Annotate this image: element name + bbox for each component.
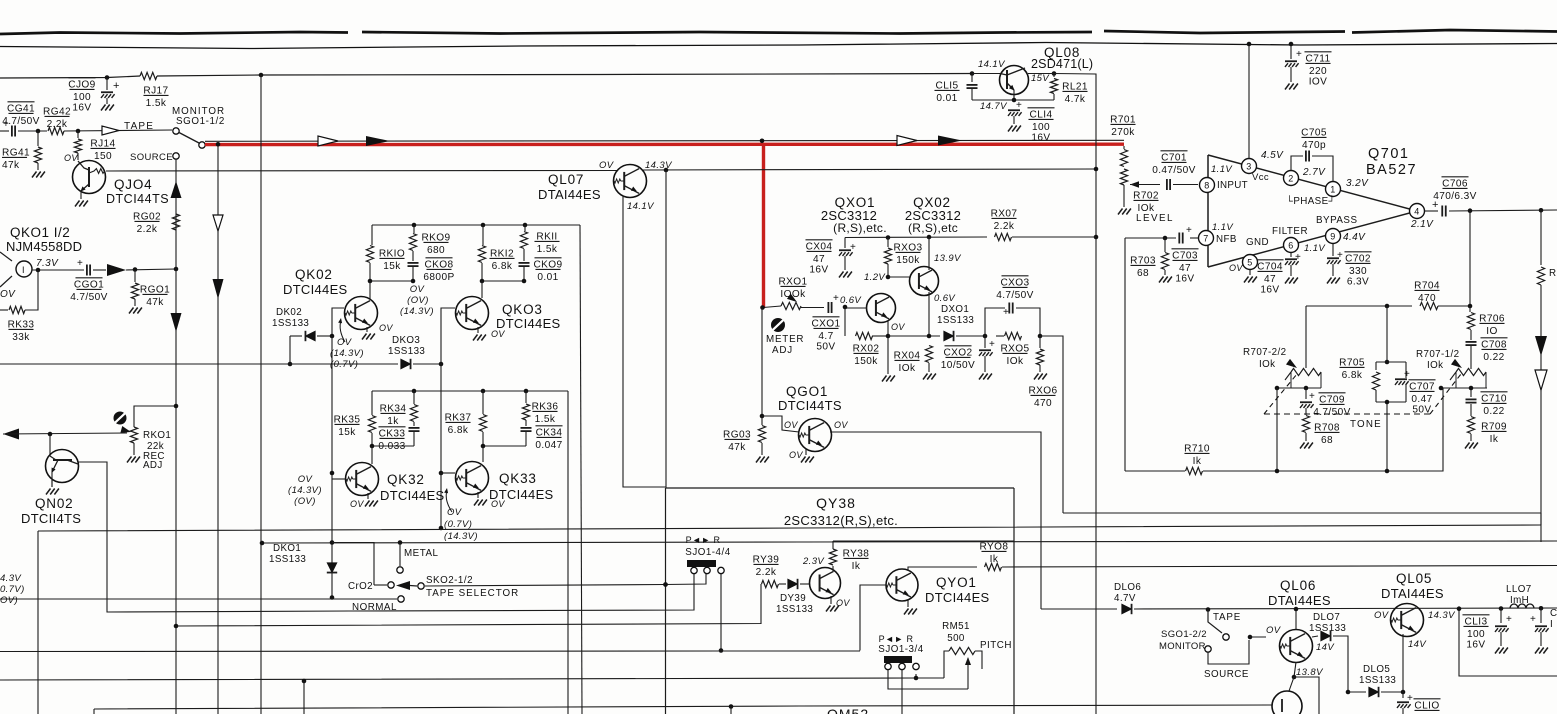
svg-text:SOURCE: SOURCE xyxy=(130,152,173,163)
transistor QX02 xyxy=(910,267,939,296)
svg-text:C709: C709 xyxy=(1319,394,1345,405)
svg-text:+: + xyxy=(1309,391,1315,402)
junction CJ09 node xyxy=(105,75,110,80)
second border line xyxy=(0,43,1557,49)
svg-text:TONE: TONE xyxy=(1350,419,1382,430)
svg-text:9: 9 xyxy=(1330,231,1335,241)
resistor RX05 xyxy=(1005,332,1022,339)
transistor QL05 xyxy=(1391,604,1424,637)
svg-text:1SS133: 1SS133 xyxy=(1309,623,1346,634)
svg-text:OV: OV xyxy=(410,284,426,295)
svg-text:DXO1: DXO1 xyxy=(941,304,969,315)
svg-text:RX07: RX07 xyxy=(991,208,1018,219)
capacitor CJ09 xyxy=(106,78,108,91)
svg-text:R703: R703 xyxy=(1130,255,1156,266)
wire to QL06 base xyxy=(1249,636,1266,638)
svg-text:CXO1: CXO1 xyxy=(811,318,840,329)
svg-text:+: + xyxy=(1186,225,1192,236)
svg-text:+: + xyxy=(850,242,856,253)
triangle xyxy=(1207,155,1209,267)
resistor RY39 xyxy=(762,580,779,587)
svg-text:4.5V: 4.5V xyxy=(1261,150,1284,161)
line B y542 xyxy=(262,541,1557,543)
wire y599 xyxy=(0,598,397,600)
svg-text:DTCII4TS: DTCII4TS xyxy=(21,511,81,526)
wire SK02 to connector y585 xyxy=(425,573,706,586)
junction top line x262 xyxy=(259,73,264,78)
svg-text:150k: 150k xyxy=(896,255,920,266)
bus RK35/RK34 bottom xyxy=(372,445,414,447)
dashed gang lines TONE xyxy=(1264,374,1297,414)
svg-text:16V: 16V xyxy=(1466,639,1485,650)
svg-text:1.5k: 1.5k xyxy=(535,414,556,425)
svg-text:DKO1: DKO1 xyxy=(273,543,301,554)
resistor RG01 xyxy=(134,270,136,282)
svg-text:ImH: ImH xyxy=(1510,595,1529,606)
svg-text:CLI3: CLI3 xyxy=(1465,616,1488,627)
pin 5 GND xyxy=(1243,255,1258,270)
TAPE arrow xyxy=(102,126,119,135)
capacitor CK34 xyxy=(521,427,532,429)
vertical x1470 xyxy=(1469,211,1471,306)
svg-text:(14.3V): (14.3V) xyxy=(330,348,364,359)
svg-text:1.5k: 1.5k xyxy=(146,98,167,109)
svg-text:OV: OV xyxy=(298,474,314,485)
capacitor CK09 xyxy=(519,262,530,264)
svg-text:6800P: 6800P xyxy=(423,272,454,283)
svg-text:MONITOR: MONITOR xyxy=(1159,641,1206,652)
svg-text:C706: C706 xyxy=(1442,178,1468,189)
pin5 ground xyxy=(1249,270,1251,275)
capacitor CG41 label xyxy=(7,101,34,103)
svg-text:1SS133: 1SS133 xyxy=(272,318,309,329)
svg-text:1SS133: 1SS133 xyxy=(1359,675,1396,686)
svg-text:└PHASE┘: └PHASE┘ xyxy=(1286,195,1336,207)
transistor QG01 xyxy=(762,416,799,432)
svg-text:QKO3: QKO3 xyxy=(502,302,543,317)
pin 7 NFB xyxy=(1199,231,1214,246)
svg-text:TAPE: TAPE xyxy=(124,121,154,132)
svg-text:OV: OV xyxy=(491,499,505,509)
svg-text:IOV: IOV xyxy=(1309,76,1328,87)
bus y306 xyxy=(1306,305,1412,307)
svg-text:OV: OV xyxy=(350,499,364,509)
svg-text:RXO1: RXO1 xyxy=(778,276,807,287)
svg-text:7: 7 xyxy=(1203,233,1208,243)
wire y237 xyxy=(845,236,987,239)
op-amp QK01 output xyxy=(0,252,12,261)
svg-text:LLO7: LLO7 xyxy=(1506,584,1532,595)
svg-text:150k: 150k xyxy=(854,356,878,367)
CrO2 branch xyxy=(332,543,374,586)
QY01 collector to RY08 xyxy=(908,567,977,571)
NFB wire / C703 / R703 xyxy=(1190,237,1198,239)
svg-text:RKO9: RKO9 xyxy=(421,232,450,243)
svg-text:OV): OV) xyxy=(0,595,18,606)
svg-text:BA527: BA527 xyxy=(1366,162,1417,178)
svg-text:(14.3V): (14.3V) xyxy=(288,485,322,496)
Vcc supply from top xyxy=(1248,44,1250,158)
svg-text:IOk: IOk xyxy=(899,363,916,374)
capacitor C702 xyxy=(1332,244,1334,256)
resistor RG41 xyxy=(37,131,39,146)
x304 stub xyxy=(302,679,307,684)
svg-text:2.2k: 2.2k xyxy=(137,224,158,235)
svg-text:4: 4 xyxy=(1414,206,1419,216)
svg-text:0.047: 0.047 xyxy=(535,440,562,451)
svg-text:QM52: QM52 xyxy=(827,706,869,714)
svg-text:Ik: Ik xyxy=(852,561,861,572)
svg-text:OV: OV xyxy=(491,329,505,339)
transistor QL07 xyxy=(614,165,647,198)
transistor QX01 xyxy=(867,294,896,323)
svg-text:15k: 15k xyxy=(338,427,356,438)
resistor RX06 xyxy=(1039,336,1041,348)
svg-text:6.8k: 6.8k xyxy=(448,425,469,436)
svg-text:+: + xyxy=(1407,693,1413,704)
svg-text:RKI2: RKI2 xyxy=(490,248,514,259)
transistor QK32 xyxy=(346,463,379,496)
svg-text:PITCH: PITCH xyxy=(980,640,1012,651)
capacitor C701 xyxy=(1166,179,1168,190)
wire y513 xyxy=(1063,512,1541,514)
svg-text:IOk: IOk xyxy=(1259,359,1275,370)
vertical x762 meter line xyxy=(761,308,763,417)
svg-text:+: + xyxy=(1016,100,1022,111)
svg-text:CGO1: CGO1 xyxy=(74,279,104,290)
resistor RL21 xyxy=(1052,71,1057,76)
svg-text:QJO4: QJO4 xyxy=(114,177,152,192)
wire: input line y~131 with CG41 RG42 xyxy=(0,130,9,132)
svg-text:METAL: METAL xyxy=(404,548,438,559)
svg-text:Ik: Ik xyxy=(1490,434,1499,445)
svg-text:NORMAL: NORMAL xyxy=(352,602,397,613)
vertical x582 long xyxy=(580,225,582,714)
lines y513/y525 right side connect xyxy=(1540,513,1542,525)
wire y336 out to x1063 xyxy=(1040,336,1063,513)
svg-text:OV: OV xyxy=(784,420,798,430)
svg-text:RX02: RX02 xyxy=(853,343,880,354)
bottom wire y471 R710 xyxy=(1125,470,1185,472)
svg-text:RK35: RK35 xyxy=(334,414,361,425)
QL08 collector wire to x1097 xyxy=(1028,74,1096,715)
svg-text:QL07: QL07 xyxy=(548,172,584,187)
svg-text:RK36: RK36 xyxy=(532,401,559,412)
svg-text:470: 470 xyxy=(1418,293,1436,304)
QL06 collector 13.8V xyxy=(1294,662,1296,677)
svg-text:P◄► R: P◄► R xyxy=(879,634,914,644)
svg-text:14.3V: 14.3V xyxy=(645,160,673,171)
monitor switch SG01-2/2 xyxy=(1206,607,1211,612)
base node down RX02 xyxy=(844,308,846,337)
METAL stub xyxy=(399,543,401,567)
svg-text:4.7/50V: 4.7/50V xyxy=(996,290,1034,301)
svg-text:+: + xyxy=(113,80,120,92)
14.3V vertical x666 xyxy=(665,170,667,488)
svg-text:SKO2-1/2: SKO2-1/2 xyxy=(426,575,473,586)
svg-text:R708: R708 xyxy=(1314,422,1340,433)
svg-text:CX04: CX04 xyxy=(806,241,833,252)
svg-text:SJO1-3/4: SJO1-3/4 xyxy=(878,644,923,655)
QG01 collector path xyxy=(830,432,1041,609)
svg-text:1SS133: 1SS133 xyxy=(776,604,813,615)
svg-text:8: 8 xyxy=(1204,180,1209,190)
svg-text:OV: OV xyxy=(337,337,353,348)
wire y541 RY38 top xyxy=(833,540,1014,542)
svg-text:CrO2: CrO2 xyxy=(348,581,373,592)
svg-text:OV: OV xyxy=(1374,610,1390,621)
svg-text:CXO2: CXO2 xyxy=(943,347,972,358)
svg-text:DTAI44ES: DTAI44ES xyxy=(1268,593,1331,608)
resistor RX04 xyxy=(925,346,932,363)
svg-text:R707-1/2: R707-1/2 xyxy=(1416,349,1460,360)
svg-text:ADJ: ADJ xyxy=(772,345,793,356)
svg-text:OV: OV xyxy=(0,289,16,300)
svg-text:SJO1-4/4: SJO1-4/4 xyxy=(685,547,730,558)
svg-text:68: 68 xyxy=(1321,435,1333,446)
svg-text:Ik: Ik xyxy=(1193,456,1202,467)
svg-text:DY39: DY39 xyxy=(780,593,806,604)
svg-text:SGO1-1/2: SGO1-1/2 xyxy=(176,116,225,127)
resistor RK34 xyxy=(413,391,415,404)
svg-text:+: + xyxy=(1506,614,1512,625)
potentiometer R702 xyxy=(1120,169,1127,185)
svg-text:4.4V: 4.4V xyxy=(1343,232,1366,243)
svg-text:(OV): (OV) xyxy=(407,295,429,306)
NFB feedback vertical x1125 xyxy=(1124,238,1126,471)
svg-text:6.3V: 6.3V xyxy=(1347,276,1369,287)
x1277 vertical to bottom xyxy=(1276,388,1278,471)
svg-text:R705: R705 xyxy=(1339,357,1365,368)
svg-text:RXO5: RXO5 xyxy=(1000,343,1029,354)
svg-text:BYPASS: BYPASS xyxy=(1316,215,1357,226)
svg-text:RGO1: RGO1 xyxy=(140,284,170,295)
resistor RY38 collector xyxy=(832,566,834,571)
svg-text:QGO1: QGO1 xyxy=(786,384,828,399)
bus RK12/CK09 bottom xyxy=(482,280,524,282)
svg-text:470/6.3V: 470/6.3V xyxy=(1433,191,1477,202)
QK33 annotation xyxy=(446,490,452,512)
right branch R706 C708 xyxy=(1469,306,1471,312)
svg-text:2SD471(L): 2SD471(L) xyxy=(1031,57,1093,71)
pin 6 FILTER xyxy=(1284,238,1299,253)
resistor RG03 xyxy=(761,416,763,425)
svg-text:150: 150 xyxy=(94,151,112,162)
svg-text:SOURCE: SOURCE xyxy=(1204,669,1249,680)
resistor RK12 xyxy=(482,225,484,245)
svg-text:CKO8: CKO8 xyxy=(424,259,453,270)
svg-text:14.1V: 14.1V xyxy=(978,59,1006,70)
pin 9 BYPASS xyxy=(1326,229,1341,244)
svg-text:P◄► R: P◄► R xyxy=(686,535,721,545)
svg-text:QL05: QL05 xyxy=(1396,571,1432,586)
svg-text:4.7k: 4.7k xyxy=(1065,94,1086,105)
svg-text:(14.3V): (14.3V) xyxy=(444,531,478,542)
svg-text:C708: C708 xyxy=(1481,339,1507,350)
transistor QK33 xyxy=(456,462,489,495)
svg-text:LEVEL: LEVEL xyxy=(1136,213,1174,224)
capacitor CK08 xyxy=(408,262,419,264)
svg-text:15k: 15k xyxy=(383,261,401,272)
wire y678 xyxy=(0,678,944,680)
QN02 collector path xyxy=(78,462,350,612)
svg-text:I: I xyxy=(1550,619,1553,630)
svg-text:OV: OV xyxy=(1229,263,1243,273)
svg-text:OV: OV xyxy=(1266,625,1282,636)
capacitor C709 xyxy=(1305,388,1307,399)
output C706 xyxy=(1425,210,1438,212)
capacitor CX04 xyxy=(844,238,846,249)
svg-text:I: I xyxy=(22,265,25,275)
transistor QY01 xyxy=(886,569,918,601)
svg-text:C: C xyxy=(1550,608,1557,619)
capacitor C705 phase xyxy=(1291,156,1303,170)
svg-text:2.2k: 2.2k xyxy=(47,119,68,130)
QK03 base vertical x441 xyxy=(441,308,455,364)
svg-text:TAPE SELECTOR: TAPE SELECTOR xyxy=(426,588,519,599)
svg-text:2.3V: 2.3V xyxy=(802,556,825,567)
diode DL05 xyxy=(1346,690,1351,695)
svg-text:R701: R701 xyxy=(1110,114,1136,125)
svg-text:Ik: Ik xyxy=(990,554,999,565)
svg-text:NFB: NFB xyxy=(1216,234,1237,245)
wire y336 to DX01 xyxy=(888,335,940,337)
resistor R703 xyxy=(1164,238,1166,252)
svg-text:2.1V: 2.1V xyxy=(1410,219,1434,230)
svg-text:14.1V: 14.1V xyxy=(627,201,655,212)
svg-text:50V: 50V xyxy=(1412,404,1431,415)
svg-text:470: 470 xyxy=(1034,398,1052,409)
svg-text:2SC3312(R,S),etc.: 2SC3312(R,S),etc. xyxy=(784,513,898,528)
wire upper bus y225 xyxy=(372,224,580,226)
resistor RK11 xyxy=(524,225,526,231)
svg-text:2.7V: 2.7V xyxy=(1302,167,1326,178)
diode DL07 xyxy=(1312,636,1318,637)
svg-text:14V: 14V xyxy=(1408,639,1427,650)
transistor QN02 xyxy=(49,434,51,456)
svg-text:CLI5: CLI5 xyxy=(936,80,959,91)
capacitor CX01 xyxy=(827,302,829,313)
connector pin3 drop x721 xyxy=(720,574,722,651)
switch SG01-1/2 xyxy=(173,128,179,134)
svg-text:RJ14: RJ14 xyxy=(90,138,115,149)
inductor LL07 xyxy=(1510,604,1534,608)
svg-text:QK33: QK33 xyxy=(499,471,537,486)
svg-text:RK37: RK37 xyxy=(445,412,472,423)
svg-text:RY38: RY38 xyxy=(843,548,870,559)
signal arrow xyxy=(93,269,106,271)
svg-text:14V: 14V xyxy=(1316,642,1335,653)
svg-text:IOk: IOk xyxy=(1427,360,1443,371)
svg-text:0.01: 0.01 xyxy=(537,272,558,283)
connector pin wires xyxy=(888,670,968,689)
svg-text:(0.7V): (0.7V) xyxy=(330,359,358,370)
capacitor CK33 xyxy=(409,427,420,429)
svg-text:DTAI44ES: DTAI44ES xyxy=(538,187,601,202)
svg-text:R707-2/2: R707-2/2 xyxy=(1243,347,1287,358)
svg-text:16V: 16V xyxy=(1175,273,1194,284)
connector SJ01-4/4 xyxy=(687,560,716,567)
connector SJ01-3/4 xyxy=(884,656,912,663)
svg-text:1.1V: 1.1V xyxy=(1212,222,1234,233)
potentiometer R707-1/2 xyxy=(1456,368,1486,375)
svg-text:OV: OV xyxy=(834,420,848,430)
transistor QY38 xyxy=(810,568,841,599)
wire y364 long xyxy=(0,363,398,365)
svg-text:DLO7: DLO7 xyxy=(1313,612,1340,623)
wire y170 xyxy=(106,170,618,173)
resistor R701 xyxy=(1110,123,1135,125)
svg-text:1.1V: 1.1V xyxy=(1211,164,1233,175)
vertical x218 xyxy=(217,146,219,714)
svg-text:13.9V: 13.9V xyxy=(934,253,962,264)
svg-text:0.22: 0.22 xyxy=(1483,406,1504,417)
diode DK03 xyxy=(401,359,411,369)
wire: top supply line y~77 xyxy=(0,76,140,78)
svg-text:CLIO: CLIO xyxy=(1414,700,1439,711)
svg-text:1SS133: 1SS133 xyxy=(269,554,306,565)
svg-text:METER: METER xyxy=(766,334,804,345)
wire rec out y434 xyxy=(3,429,19,440)
svg-text:+: + xyxy=(1337,250,1343,261)
svg-text:QK02: QK02 xyxy=(295,267,333,282)
junction RG41 xyxy=(36,129,41,134)
svg-text:+: + xyxy=(833,293,839,304)
svg-text:DTCI44TS: DTCI44TS xyxy=(106,192,169,206)
svg-text:DTCI44ES: DTCI44ES xyxy=(496,316,561,331)
svg-text:SGO1-2/2: SGO1-2/2 xyxy=(1161,629,1207,640)
svg-text:68: 68 xyxy=(1137,268,1149,279)
svg-text:R709: R709 xyxy=(1481,421,1507,432)
svg-text:DTCI44ES: DTCI44ES xyxy=(380,488,445,503)
wire y706 xyxy=(93,709,95,714)
svg-text:47k: 47k xyxy=(146,297,164,308)
vertical x568 xyxy=(567,391,569,714)
svg-text:+: + xyxy=(77,258,83,269)
capacitor CL13 xyxy=(1499,606,1504,611)
svg-text:47k: 47k xyxy=(728,442,746,453)
svg-text:+: + xyxy=(1296,49,1302,60)
svg-text:RG02: RG02 xyxy=(133,211,161,222)
svg-text:13.8V: 13.8V xyxy=(1296,667,1324,678)
QK02 base network / DK02 xyxy=(332,308,344,336)
transistor QL08 xyxy=(972,73,1000,75)
svg-text:1.5k: 1.5k xyxy=(537,244,558,255)
filter box xyxy=(1459,609,1557,676)
svg-text:TAPE: TAPE xyxy=(1213,612,1241,623)
svg-text:(0.7V): (0.7V) xyxy=(444,519,472,530)
transistor QL06 xyxy=(1280,630,1313,663)
svg-text:+: + xyxy=(1404,369,1410,380)
QL05 collector down xyxy=(1402,634,1404,698)
svg-text:(R,S),etc.: (R,S),etc. xyxy=(833,221,887,235)
transistor QK03 xyxy=(456,297,489,330)
svg-text:QL06: QL06 xyxy=(1280,578,1316,593)
svg-text:7.3V: 7.3V xyxy=(36,258,59,269)
svg-text:4.7/50V: 4.7/50V xyxy=(1313,407,1351,418)
wire y585 junction xyxy=(663,582,668,587)
svg-text:10/50V: 10/50V xyxy=(941,360,975,371)
svg-text:6: 6 xyxy=(1288,240,1293,250)
svg-text:RKO1: RKO1 xyxy=(143,430,171,441)
1.2V node xyxy=(886,275,891,280)
svg-text:0.01: 0.01 xyxy=(936,93,957,104)
svg-text:0.47/50V: 0.47/50V xyxy=(1152,165,1196,176)
svg-text:C701: C701 xyxy=(1161,152,1187,163)
resistor R708 xyxy=(1302,416,1309,433)
svg-text:DLO5: DLO5 xyxy=(1363,664,1390,675)
svg-text:IOOk: IOOk xyxy=(780,289,806,300)
